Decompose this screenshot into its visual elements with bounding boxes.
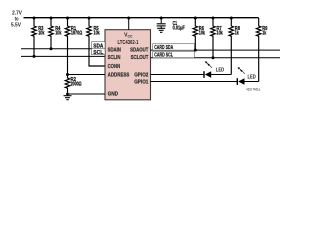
svg-text:SCLOUT: SCLOUT xyxy=(131,55,149,61)
svg-text:2000Ω: 2000Ω xyxy=(71,82,82,88)
svg-text:10k: 10k xyxy=(38,31,45,37)
svg-text:LED: LED xyxy=(216,67,224,73)
svg-text:CARD SDA: CARD SDA xyxy=(154,45,173,51)
svg-text:SDAIN: SDAIN xyxy=(108,47,121,53)
node CARD SDA boxed label xyxy=(153,44,195,51)
resistor R1 xyxy=(65,17,82,75)
node CARD SCL boxed label xyxy=(153,52,195,59)
svg-text:LTC4302-1: LTC4302-1 xyxy=(118,40,139,46)
svg-text:4302 TA01a: 4302 TA01a xyxy=(246,88,260,92)
wire SDA bus (left) xyxy=(21,48,105,50)
junction R1 R2 ADDRESS xyxy=(66,73,69,76)
svg-text:VCC: VCC xyxy=(124,33,133,39)
svg-text:1870Ω: 1870Ω xyxy=(71,31,83,37)
LED D2 xyxy=(237,67,256,85)
svg-text:ADDRESS: ADDRESS xyxy=(108,73,130,79)
resistor R4 xyxy=(49,17,62,49)
wire GPIO1 to LED2 xyxy=(151,81,238,83)
capacitor C1 xyxy=(157,17,185,32)
svg-text:SCLIN: SCLIN xyxy=(108,55,121,61)
ground under R2 xyxy=(64,94,72,100)
svg-text:GPIO2: GPIO2 xyxy=(134,73,148,79)
node VIN label 2.7V to 5.5V xyxy=(11,10,22,28)
svg-text:10k: 10k xyxy=(55,31,62,37)
wire CARD SDA xyxy=(151,49,281,51)
wire VCC pin to rail xyxy=(128,18,130,30)
junction R3 to SCL xyxy=(33,55,36,58)
resistor R8 xyxy=(229,17,241,75)
svg-text:0.01µF: 0.01µF xyxy=(173,25,185,31)
svg-text:GND: GND xyxy=(108,92,119,98)
resistor R9 xyxy=(256,18,268,82)
wire CARD SCL xyxy=(151,57,281,59)
svg-text:5.5V: 5.5V xyxy=(11,22,21,28)
node SDA boxed label xyxy=(92,42,106,50)
svg-text:SCL: SCL xyxy=(93,50,104,56)
svg-text:LED: LED xyxy=(248,75,256,81)
svg-text:SDAOUT: SDAOUT xyxy=(130,47,149,53)
node VIN supply rail xyxy=(24,17,259,19)
op-amp U1 LTC4302-1 body xyxy=(105,30,151,100)
svg-text:10k: 10k xyxy=(217,31,224,37)
wire ADDRESS xyxy=(68,74,106,76)
resistor R6 xyxy=(193,17,205,52)
svg-text:CARD SCL: CARD SCL xyxy=(154,53,173,59)
wire LED2 anode to R9 xyxy=(244,81,258,83)
resistor R3 xyxy=(32,17,45,57)
ground under C1 xyxy=(157,28,165,32)
junction R4 to SDA xyxy=(50,47,53,50)
svg-text:10k: 10k xyxy=(199,31,206,37)
svg-text:1k: 1k xyxy=(235,31,239,37)
junction VCC on rail xyxy=(127,17,130,20)
resistor R5 xyxy=(87,17,105,67)
node SCL boxed label xyxy=(92,48,106,56)
LED D1 xyxy=(204,61,224,78)
resistor R7 xyxy=(211,17,223,60)
svg-text:1k: 1k xyxy=(262,31,266,37)
wire SCL bus (left) xyxy=(21,55,105,57)
resistor R2 xyxy=(65,75,82,95)
svg-text:GPIO1: GPIO1 xyxy=(134,80,148,86)
wire GND pin xyxy=(68,93,106,95)
svg-text:10k: 10k xyxy=(94,31,101,37)
wire GPIO2 to LED1 xyxy=(151,74,205,76)
wire LED1 anode to R8 xyxy=(211,74,231,76)
svg-text:CONN: CONN xyxy=(108,64,121,70)
